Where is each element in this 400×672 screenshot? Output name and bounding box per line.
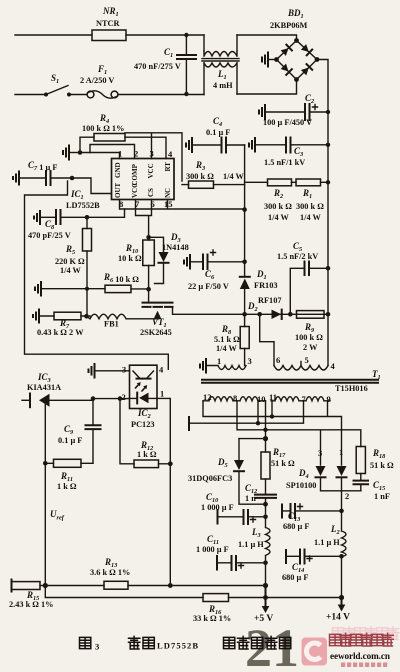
svg-text:+14 V: +14 V [326,613,350,623]
wire drain to transformer pin6 [260,314,274,365]
resistor R4 [94,134,125,142]
svg-text:T15H016: T15H016 [335,384,368,393]
resistor R15 [11,580,13,592]
svg-text:11: 11 [269,392,277,402]
capacitor C11 [217,562,266,564]
ground at bridge left [269,59,277,61]
resistor R9 [297,311,325,319]
svg-text:RF107: RF107 [258,296,282,305]
capacitor C7 [20,177,72,179]
svg-text:2KBP06M: 2KBP06M [270,21,308,30]
svg-text:1 k Ω: 1 k Ω [137,450,157,459]
svg-text:RT: RT [164,162,172,172]
svg-text:1: 1 [118,149,122,159]
ground at R6 line [42,288,105,290]
svg-text:680 µ F: 680 µ F [282,573,308,582]
svg-text:KIA431A: KIA431A [27,383,61,392]
capacitor C2 [266,111,328,113]
svg-text:3: 3 [95,642,99,652]
transformer secondary winding 11-7-9 [271,397,330,401]
resistor R11 [54,459,82,467]
resistor R16 [203,594,229,602]
svg-text:6: 6 [276,355,280,365]
wire R4 right to pin4 (RT) [125,137,166,158]
resistor R17 [261,452,270,479]
wire C4/C6 column [244,145,246,277]
svg-text:VCC: VCC [147,163,155,178]
svg-text:0.1 µ F: 0.1 µ F [58,436,82,445]
resistor R5 [83,229,92,252]
svg-text:300 k Ω: 300 k Ω [264,202,292,211]
wire bottom AC line [15,80,297,95]
svg-text:3.6 k Ω 1%: 3.6 k Ω 1% [90,568,130,577]
svg-text:300 k Ω: 300 k Ω [296,202,324,211]
svg-text:0.1 µ F: 0.1 µ F [206,128,230,137]
svg-text:1: 1 [160,389,164,399]
wire left feedback rail C7 to PC123 pin4 [25,181,169,369]
svg-text:LD7552B: LD7552B [157,641,199,651]
IC IC1 LD7552B [112,159,175,200]
capacitor C5 snubber [290,268,328,314]
resistor R3 [189,181,214,188]
svg-text:2 A/250 V: 2 A/250 V [80,76,114,85]
diode D3 1N4148 [149,237,164,283]
wire gnd node to pin1 and pin2 loop [80,153,120,159]
capacitor C10 [218,516,266,518]
svg-text:100 µ F/450 V: 100 µ F/450 V [263,118,312,127]
watermark eeworld logo block [302,638,328,666]
resistor R18 [356,447,365,474]
svg-text:10 k Ω: 10 k Ω [118,254,142,263]
svg-text:NTCR: NTCR [96,19,121,28]
svg-text:300 k Ω: 300 k Ω [186,172,214,181]
svg-text:5.1 k Ω: 5.1 k Ω [214,335,240,344]
svg-text:33 k Ω 1%: 33 k Ω 1% [193,614,231,623]
svg-text:100 k Ω: 100 k Ω [295,333,323,342]
svg-text:CS: CS [147,188,155,197]
capacitor C1 [185,35,187,94]
svg-text:2SK2645: 2SK2645 [140,328,172,337]
resistor R1 [296,179,321,186]
resistor R6 [105,285,131,292]
resistor R12 [134,460,159,468]
capacitor C14 [286,555,342,557]
svg-text:1 n: 1 n [245,494,256,503]
svg-text:22 µ F/50 V: 22 µ F/50 V [188,282,229,291]
svg-text:1.1 µ H: 1.1 µ H [314,538,340,547]
transformer core [202,380,378,383]
svg-text:51 k Ω: 51 k Ω [271,459,295,468]
svg-text:1.1 µ H: 1.1 µ H [238,540,264,549]
wire pin1 down to +5V rail [157,398,170,585]
inductor L2 [342,511,347,598]
node drain junction [242,312,247,317]
switch S1 [44,93,48,97]
svg-text:1: 1 [217,356,221,366]
svg-text:LD7552B: LD7552B [66,201,100,210]
svg-text:GND: GND [114,162,122,178]
bridge rectifier BD1 [277,41,318,80]
resistor R10 [143,240,155,266]
svg-text:SP10100: SP10100 [286,481,316,490]
svg-text:2: 2 [345,491,349,501]
inductor L1 common-mode choke [204,35,237,51]
svg-text:1/4 W: 1/4 W [216,344,238,353]
optocoupler IC2 PC123 [130,365,158,408]
capacitor C9 [92,399,94,463]
transformer secondary winding 12-8-10 [203,397,266,401]
transformer T1 primary winding 6-5-4 [274,366,328,371]
svg-text:21: 21 [245,618,299,672]
svg-text:VCC: VCC [131,183,139,198]
node D5/R17 top [239,438,266,440]
svg-text:2: 2 [122,392,126,402]
capacitor C4 [193,144,245,146]
svg-text:3: 3 [318,448,322,458]
svg-text:eeworld.com.cn: eeworld.com.cn [330,651,390,661]
svg-text:3: 3 [150,149,154,159]
svg-text:1 000 µ F: 1 000 µ F [201,503,234,512]
wire HV rail [317,60,328,366]
svg-text:15: 15 [164,199,173,209]
svg-text:COMP: COMP [131,163,139,185]
svg-text:NC: NC [164,188,172,198]
capacitor C15 [360,474,362,481]
capacitor C6 [191,261,245,263]
svg-text:220 K Ω: 220 K Ω [55,257,85,266]
svg-text:1.5 nF/2 kV: 1.5 nF/2 kV [277,252,318,261]
svg-text:FB1: FB1 [104,320,119,329]
svg-text:100 k Ω 1%: 100 k Ω 1% [82,124,124,133]
svg-text:3: 3 [248,356,252,366]
svg-text:1/4 W: 1/4 W [268,213,290,222]
transformer T1 aux winding 1-3 [207,366,246,370]
inductor L3 [266,504,271,585]
svg-text:3: 3 [122,365,126,375]
wire lower rail [45,586,341,598]
resistor R13 [104,581,128,589]
diode D1 FR103 [240,276,250,278]
resistor NR1 [92,30,126,41]
ground at R4 [70,152,80,154]
resistor R2 [268,179,292,186]
diode D5 31DQ06FC3 [238,439,240,460]
svg-text:FR103: FR103 [254,281,278,290]
terminal +5V [265,586,267,608]
svg-text:470 pF/25 V: 470 pF/25 V [28,231,71,240]
svg-text:1 000 µ F: 1 000 µ F [196,545,229,554]
svg-text:1.5 nF/1 kV: 1.5 nF/1 kV [264,158,305,167]
svg-text:2.43 k Ω 1%: 2.43 k Ω 1% [9,600,53,609]
svg-text:2 W: 2 W [303,343,318,352]
svg-text:1/4 W: 1/4 W [223,172,245,181]
secondary bus lines [203,401,342,465]
MOSFET VT1 2SK2645 [143,302,173,304]
wire R4 right to R3 left via top line [125,133,182,181]
capacitor C12 [255,495,276,498]
diode D2 RF107 [272,310,282,319]
ground at PC123 pin3 [96,370,130,372]
capacitor C3 [256,144,328,146]
wire +5V feedback rail [45,585,265,587]
svg-text:1/4 W: 1/4 W [300,213,322,222]
wire top AC line [15,35,297,41]
svg-text:1: 1 [339,447,343,457]
svg-text:51 k Ω: 51 k Ω [370,461,394,470]
wire C7 node to IC left [72,178,112,194]
svg-text:4 mH: 4 mH [213,81,233,90]
svg-text:0.43 k Ω 2 W: 0.43 k Ω 2 W [37,328,84,337]
svg-text:470 nF/275 V: 470 nF/275 V [134,62,181,71]
svg-text:OUT: OUT [114,183,122,199]
svg-text:PC123: PC123 [131,420,155,429]
svg-text:31DQ06FC3: 31DQ06FC3 [188,474,232,483]
wire pin2 net [93,398,130,400]
figure caption: 图 3 基于 LD7552B 的开关电源 [80,636,291,651]
resistor R7 [54,312,81,320]
capacitor C8 [41,216,87,218]
svg-text:680 µ F: 680 µ F [283,522,309,531]
terminal +14V [341,598,343,606]
capacitor C13 [282,510,342,512]
svg-text:1 nF: 1 nF [374,492,390,501]
fuse F1 [87,91,94,98]
svg-text:1/4 W: 1/4 W [60,266,82,275]
svg-text:12: 12 [203,392,212,402]
node R4/gnd [78,150,83,155]
svg-text:5: 5 [305,355,309,365]
svg-text:1N4148: 1N4148 [162,243,189,252]
svg-text:1 k Ω: 1 k Ω [57,482,77,491]
resistor R8 [240,327,249,349]
ferrite bead FB1 [87,314,159,319]
svg-text:2: 2 [134,149,138,159]
wire pin8 OUT line [120,200,245,210]
